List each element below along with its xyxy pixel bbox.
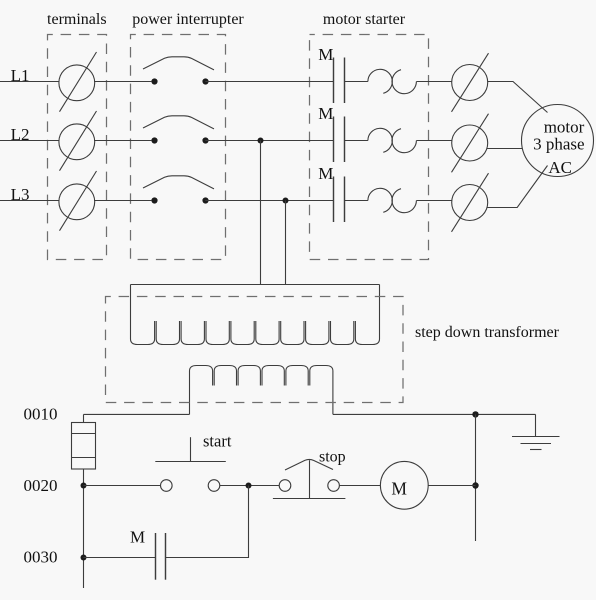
terminal L1 (circle with slash) [59,52,97,112]
svg-text:L2: L2 [11,125,30,144]
svg-text:AC: AC [548,158,572,177]
overload relay OL3 [368,188,417,212]
auxiliary contact M (seal-in) [156,533,166,580]
wire rung 0030 rail to contact [84,557,156,559]
ground symbol [512,437,560,450]
svg-text:motor starter: motor starter [323,11,406,28]
motor starter enclosure (dashed) [310,35,429,260]
svg-text:stop: stop [319,448,346,465]
contactor contact M pole 1 [334,58,345,104]
interrupter switch pole L3 [143,176,214,204]
wire motor lead 3 [487,166,548,208]
wire start to node [220,485,279,487]
transformer primary top conductor [131,284,380,286]
svg-text:start: start [203,432,232,451]
pushbutton start (N.O.) [155,437,226,491]
terminal L2 (circle with slash) [59,111,97,171]
svg-text:M: M [318,164,333,183]
terminal L3 (circle with slash) [59,171,97,231]
coil M (motor starter coil) [380,461,428,509]
svg-text:motor: motor [544,117,585,136]
wire L3 terminal to interrupter [94,200,151,202]
wire motor lead 1 [488,82,548,113]
wire L1 interrupter to starter [205,81,333,83]
wire coil to right rail [428,485,475,487]
wire ground stem [535,414,537,436]
overload relay OL1 [368,69,417,93]
wire L2 dropper to transformer [260,141,262,285]
contactor contact M pole 2 [334,117,345,163]
wire L2 contact lead into overload [345,140,368,142]
node L3 tap (junction dot) [283,198,289,204]
terminal T1 motor side (circle with slash) [452,53,489,112]
svg-text:L3: L3 [11,185,30,204]
terminal T3 motor side (circle with slash) [452,173,489,232]
wire L3 left lead [0,200,59,202]
wire L3 contact lead into overload [345,200,368,202]
wire L3 interrupter to starter [205,200,333,202]
transformer secondary winding [190,366,333,415]
node left rail / rung 0030 (junction dot) [81,555,87,561]
svg-text:0010: 0010 [24,405,58,424]
power interrupter enclosure (dashed) [131,35,226,260]
svg-text:L1: L1 [11,66,30,85]
interrupter switch pole L2 [143,116,214,144]
wire right rail [475,414,477,541]
node L2 tap (junction dot) [258,138,264,144]
wire L3 dropper to transformer [285,201,287,285]
wire L2 left lead [0,140,59,142]
wire rung 0010 right segment [333,413,536,415]
node rung 0010 / right rail (junction dot) [472,411,478,417]
wire L3 overload to output terminal [416,200,452,202]
svg-text:terminals: terminals [47,11,107,28]
wire left rail lower [83,469,85,588]
pushbutton stop (N.C.) [273,459,346,498]
wire left rail upper [83,414,85,422]
wire L1 contact lead into overload [345,81,368,83]
svg-text:M: M [318,104,333,123]
svg-text:M: M [391,479,407,499]
fuse F1 [72,423,96,470]
node right rail / rung 0020 (junction dot) [472,482,478,488]
interrupter switch pole L1 [143,57,214,85]
svg-text:3 phase: 3 phase [533,135,584,154]
svg-text:M: M [318,45,333,64]
wire L1 terminal to interrupter [94,81,151,83]
wire stop to coil [340,485,381,487]
contactor contact M pole 3 [334,177,345,223]
transformer primary winding [131,285,380,345]
wire L1 left lead [0,81,59,83]
svg-text:power interrupter: power interrupter [132,11,244,28]
wire rung 0020 rail to start [84,485,161,487]
svg-text:0020: 0020 [24,476,58,495]
terminal T2 motor side (circle with slash) [452,114,489,173]
transformer enclosure (dashed) [106,297,404,403]
wire L2 interrupter to starter [205,140,333,142]
terminals enclosure (dashed) [48,35,107,260]
overload relay OL2 [368,128,417,152]
node rung 0020 branch (junction dot) [246,483,252,489]
wire L1 overload to output terminal [416,81,452,83]
wire L2 terminal to interrupter [94,140,151,142]
node left rail / rung 0020 (junction dot) [81,483,87,489]
wire rung 0030 to branch [166,486,249,558]
svg-text:0030: 0030 [24,548,58,567]
wire L2 overload to output terminal [416,140,452,142]
wire rung 0010 left segment [84,413,190,415]
motor M1 (3 phase AC) [522,105,594,178]
wire motor lead 2 [487,148,522,150]
svg-text:step down transformer: step down transformer [415,324,560,341]
svg-text:M: M [130,528,145,547]
